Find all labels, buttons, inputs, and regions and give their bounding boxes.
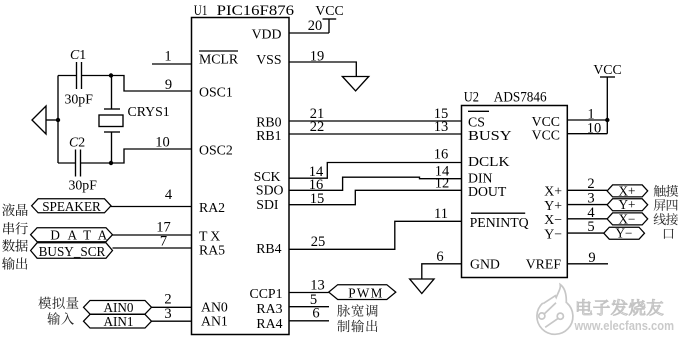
svg-text:Y−: Y− [544, 226, 562, 241]
svg-text:1: 1 [164, 49, 171, 65]
wire RA5 pin 7 [113, 247, 192, 249]
svg-text:9: 9 [165, 77, 172, 93]
svg-text:BUSY_SCR: BUSY_SCR [39, 244, 106, 259]
svg-text:RA3: RA3 [256, 301, 282, 316]
svg-text:9: 9 [588, 250, 595, 266]
wire AN0 pin 2 [152, 306, 192, 308]
annotation text LCD serial data output [2, 204, 15, 217]
port flag BUSY_SCR [31, 243, 113, 258]
ground left stub [46, 119, 58, 121]
annotation text touch screen 4-wire interface [654, 185, 666, 197]
ground symbol under GND [410, 279, 434, 294]
svg-text:RA5: RA5 [199, 243, 225, 258]
svg-text:AN1: AN1 [201, 314, 228, 329]
svg-text:RB1: RB1 [256, 128, 281, 143]
svg-text:11: 11 [434, 206, 448, 222]
svg-text:VCC: VCC [315, 3, 343, 18]
port flag DATA [31, 228, 113, 242]
svg-text:DCLK: DCLK [468, 154, 510, 169]
svg-text:PWM: PWM [348, 285, 382, 300]
port flag Y- [604, 227, 645, 239]
svg-text:X+: X+ [544, 184, 562, 199]
wire RB1 to BUSY [289, 133, 462, 135]
svg-text:SDI: SDI [256, 197, 279, 212]
ground left triangle [32, 106, 46, 134]
svg-text:20: 20 [308, 18, 323, 34]
port flag X- [607, 213, 648, 225]
node junction C2-crystal [109, 161, 113, 165]
svg-text:OSC2: OSC2 [199, 143, 233, 158]
svg-text:30pF: 30pF [69, 178, 98, 193]
svg-text:SPEAKER: SPEAKER [42, 199, 101, 214]
svg-text:3: 3 [164, 306, 171, 322]
watermark site name [577, 299, 592, 315]
power VCC right net [567, 119, 607, 121]
annotation text PWM output [337, 305, 350, 317]
svg-text:AIN0: AIN0 [103, 300, 133, 315]
wire C2 left [58, 162, 76, 164]
svg-text:7: 7 [160, 233, 167, 249]
wire CCP1 to PWM [289, 292, 329, 294]
wire RA4 pin 6 [289, 320, 329, 322]
port flag PWM [329, 285, 396, 300]
svg-text:DOUT: DOUT [468, 184, 507, 199]
svg-text:C1: C1 [70, 47, 86, 62]
svg-text:5: 5 [587, 219, 594, 235]
svg-text:RA2: RA2 [199, 200, 225, 215]
svg-text:15: 15 [310, 191, 325, 207]
svg-text:RB4: RB4 [256, 241, 281, 256]
wire X- pin 4 [567, 218, 607, 220]
wire C1 left [58, 75, 77, 77]
node junction rail-ground [56, 118, 60, 122]
svg-text:SDO: SDO [256, 183, 284, 198]
svg-text:22: 22 [310, 119, 325, 135]
svg-text:12: 12 [435, 176, 450, 192]
svg-text:PENINTQ: PENINTQ [470, 215, 529, 230]
svg-text:CRYS1: CRYS1 [128, 104, 170, 119]
svg-text:GND: GND [470, 257, 500, 272]
svg-text:DATA: DATA [50, 228, 107, 243]
svg-text:16: 16 [434, 146, 449, 162]
port flag Y+ [607, 199, 648, 211]
svg-text:10: 10 [587, 120, 602, 136]
svg-text:6: 6 [436, 249, 443, 265]
watermark logo [537, 285, 573, 335]
op-amp U2 ADS7846 body [462, 106, 568, 278]
svg-text:www.elecfans.com: www.elecfans.com [574, 318, 674, 333]
power VCC top [289, 32, 329, 34]
wire VREF pin 9 [567, 263, 608, 265]
port flag X+ [607, 185, 648, 197]
svg-text:CCP1: CCP1 [250, 286, 283, 301]
svg-text:25: 25 [311, 234, 326, 250]
svg-text:X+: X+ [619, 183, 636, 198]
svg-text:RA4: RA4 [256, 316, 282, 331]
svg-text:10: 10 [155, 134, 170, 150]
svg-text:VREF: VREF [526, 257, 562, 272]
svg-text:BUSY: BUSY [468, 128, 512, 143]
wire RA2 pin 4 [111, 206, 192, 208]
svg-text:ADS7846: ADS7846 [494, 90, 547, 106]
port flag AIN1 [84, 314, 152, 328]
wire Y+ pin 3 [567, 204, 607, 206]
svg-text:AIN1: AIN1 [103, 314, 133, 329]
svg-text:DIN: DIN [468, 170, 493, 185]
ground GND net of U2 [422, 264, 462, 279]
wire C1 right to node [82, 75, 112, 77]
annotation text analog input [38, 297, 51, 309]
svg-text:Y−: Y− [616, 226, 633, 241]
op-amp U1 PIC16F876 body [192, 18, 290, 335]
wire SCK to DCLK [289, 163, 462, 179]
wire RB4 to PENINTQ [289, 221, 462, 249]
wire SDI to DOUT [289, 190, 462, 204]
node junction C1-crystal [109, 73, 113, 77]
svg-text:C2: C2 [69, 135, 85, 150]
svg-text:AN0: AN0 [201, 299, 228, 314]
svg-text:Y+: Y+ [544, 198, 562, 213]
ground VSS net [289, 62, 356, 77]
ground symbol under VSS [342, 77, 368, 91]
svg-text:19: 19 [310, 49, 325, 65]
svg-text:T X: T X [199, 229, 220, 244]
wire SDO to DIN [289, 177, 462, 190]
capacitor C1 plates [76, 62, 78, 89]
svg-text:VCC: VCC [532, 128, 560, 143]
crystal CRYS1 [111, 76, 113, 110]
port flag AIN0 [84, 301, 152, 315]
svg-text:MCLR: MCLR [199, 52, 239, 67]
svg-text:13: 13 [434, 119, 449, 135]
svg-text:U1: U1 [194, 3, 208, 19]
wire left rail [57, 76, 59, 164]
svg-text:4: 4 [165, 187, 173, 203]
svg-text:Y+: Y+ [619, 197, 636, 212]
svg-text:30pF: 30pF [65, 92, 94, 107]
svg-text:X−: X− [544, 212, 562, 227]
capacitor C2 plates [75, 150, 77, 177]
wire MCLR pin 1 stub [152, 63, 192, 65]
wire OSC2 pin 10 [111, 149, 192, 163]
svg-text:U2: U2 [464, 90, 479, 106]
wire Y- pin 5 [567, 232, 604, 234]
svg-text:6: 6 [312, 306, 319, 322]
svg-text:VDD: VDD [252, 27, 282, 42]
node junction VCC [605, 118, 609, 122]
wire C2 right to node [81, 162, 112, 164]
wire OSC1 pin 9 [111, 76, 192, 92]
wire TX pin 17 [113, 234, 192, 236]
wire X+ pin 2 [567, 189, 607, 191]
wire RA3 pin 5 [289, 306, 329, 308]
wire RB0 to CS [289, 120, 462, 122]
svg-text:PIC16F876: PIC16F876 [217, 3, 295, 19]
svg-text:X−: X− [619, 211, 636, 226]
wire AN1 pin 3 [152, 320, 192, 322]
svg-text:OSC1: OSC1 [199, 85, 233, 100]
svg-text:VSS: VSS [256, 52, 281, 67]
port flag SPEAKER [32, 199, 111, 213]
svg-text:VCC: VCC [593, 62, 621, 77]
